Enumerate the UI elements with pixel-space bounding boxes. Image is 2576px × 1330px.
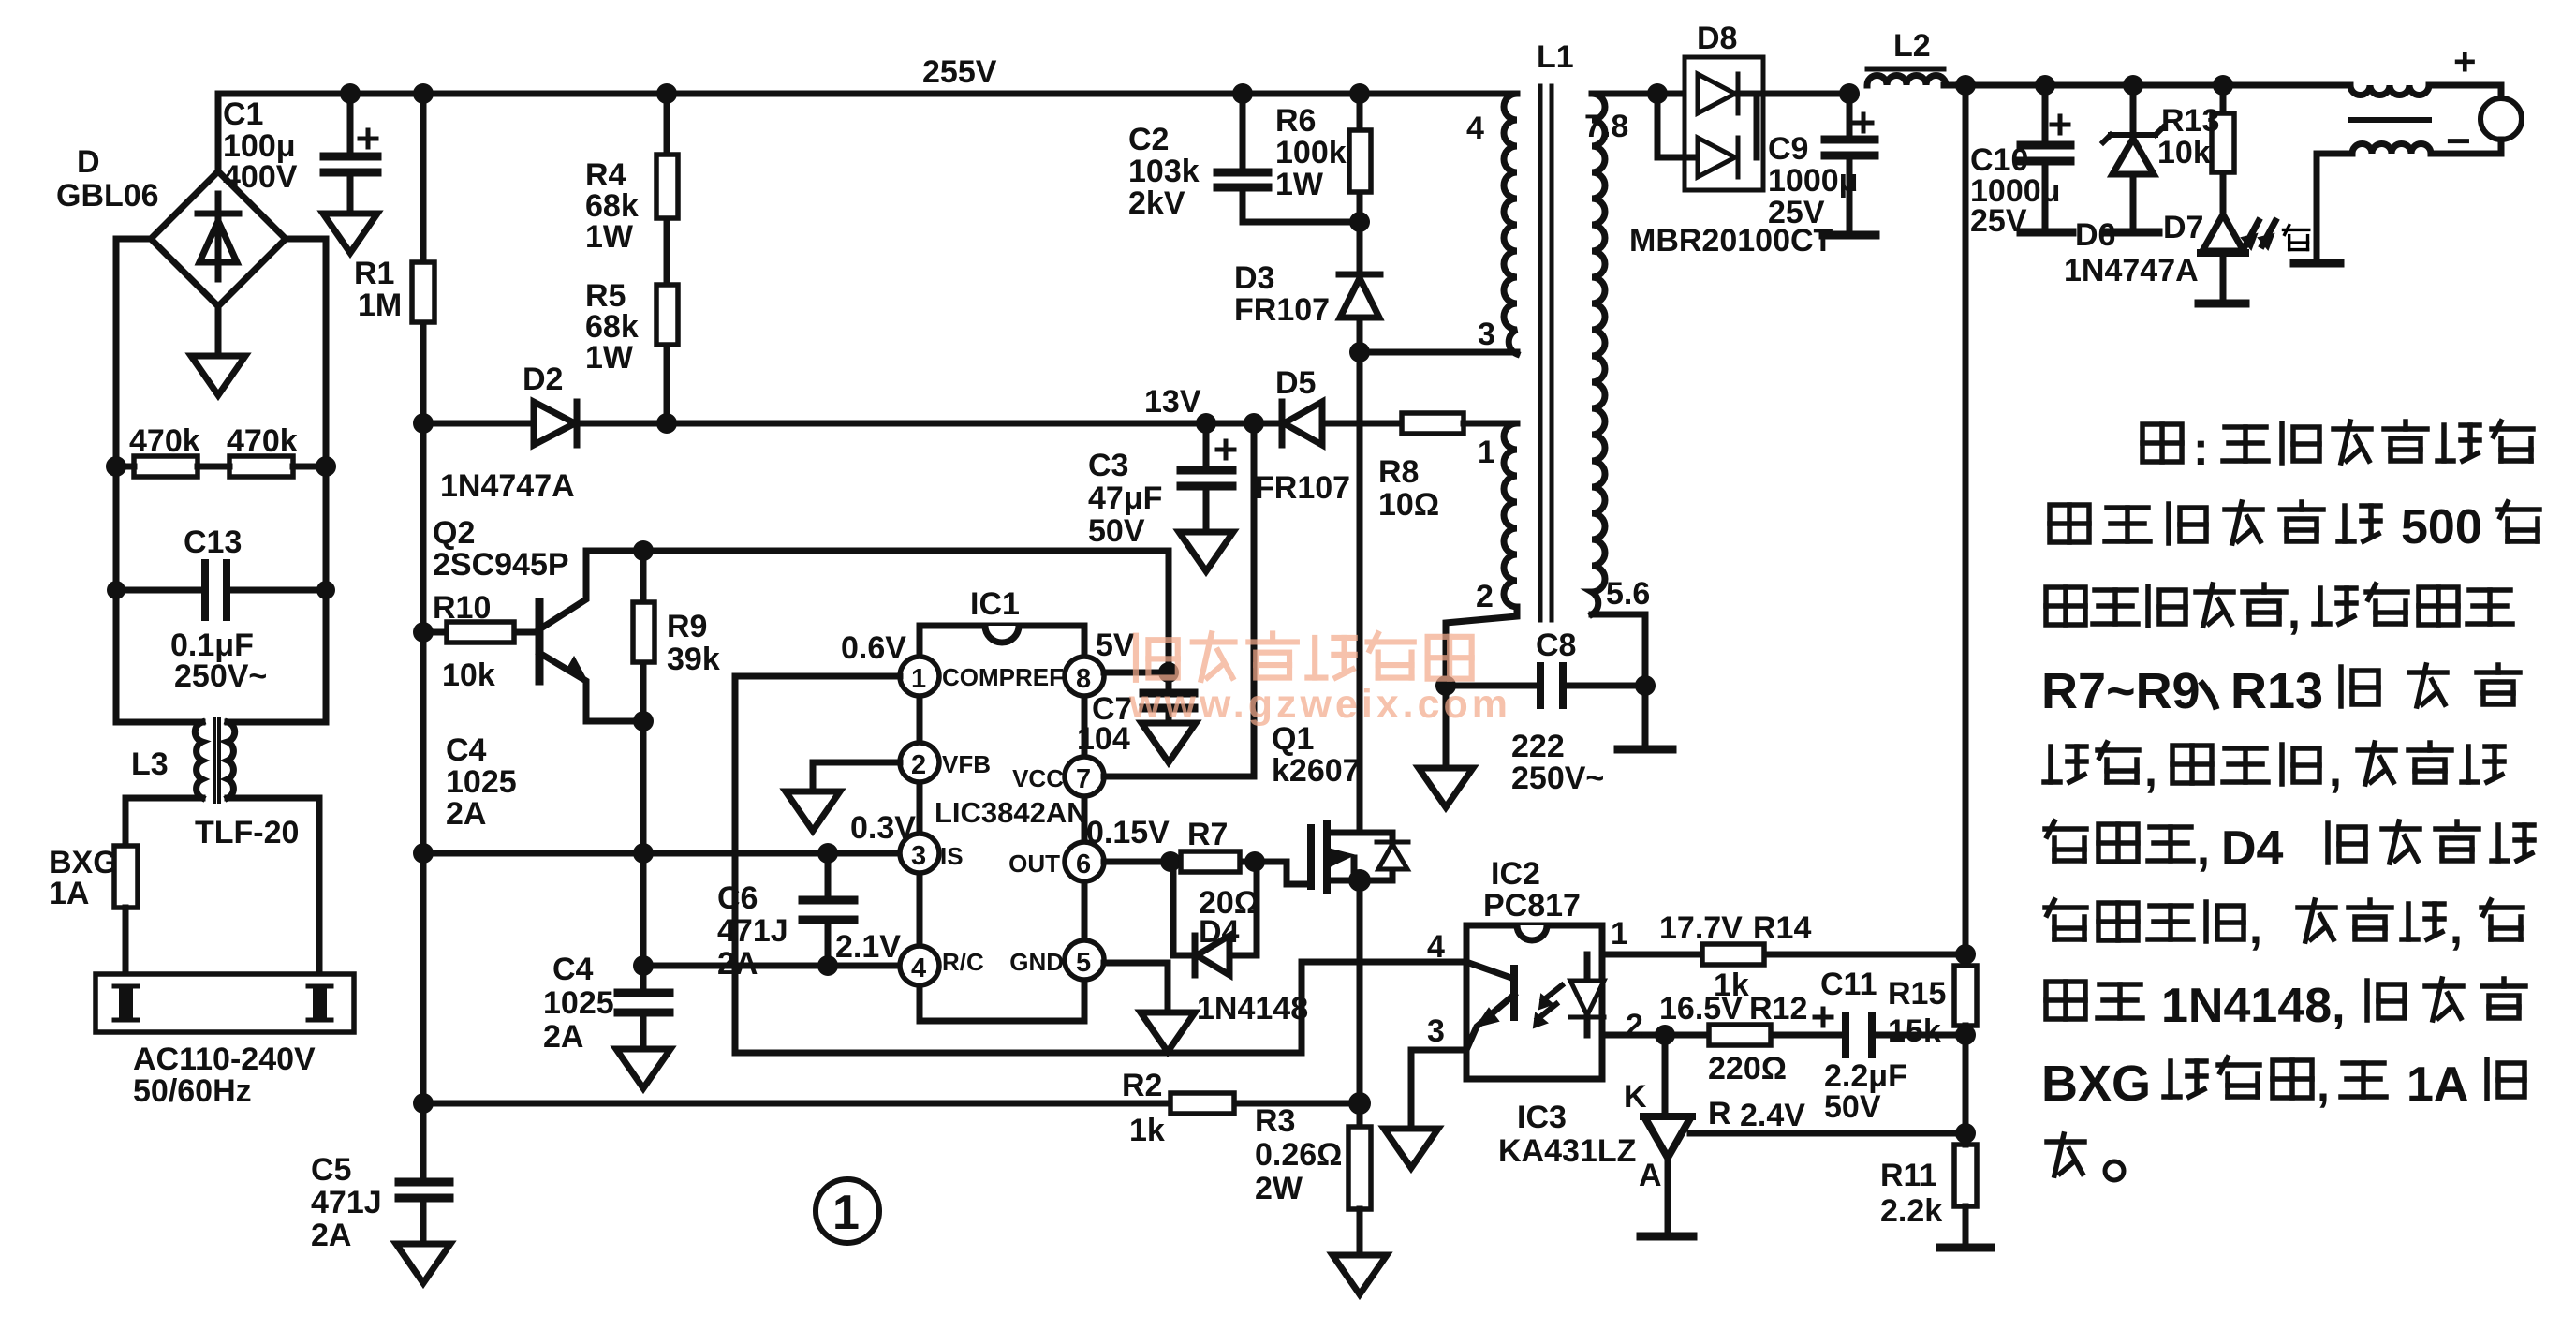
svg-text:25V: 25V: [1768, 195, 1825, 230]
svg-text:0.6V: 0.6V: [841, 630, 906, 666]
svg-text:,: ,: [2317, 1058, 2330, 1111]
svg-text:C13: C13: [184, 525, 242, 560]
svg-text:R8: R8: [1378, 454, 1419, 490]
svg-text:,: ,: [2329, 744, 2342, 796]
node 0.6V: [841, 630, 906, 666]
svg-text:10k: 10k: [442, 658, 495, 693]
wire R12 row: [1602, 1032, 1965, 1039]
svg-text:5V: 5V: [1096, 628, 1135, 663]
svg-text:−: −: [2446, 116, 2471, 165]
wire bridge left arm: [116, 239, 202, 722]
capacitor C5: [399, 1182, 449, 1198]
svg-text:25V: 25V: [1970, 203, 2027, 239]
resistor R13 10k: [2220, 85, 2227, 211]
svg-text:AC110-240V: AC110-240V: [133, 1042, 316, 1077]
svg-text:C4: C4: [552, 952, 594, 987]
svg-text:R13: R13: [2161, 103, 2219, 139]
svg-text:39k: 39k: [667, 642, 720, 677]
svg-text:471J: 471J: [311, 1185, 382, 1220]
resistor R1 1M: [420, 94, 427, 423]
svg-text:1: 1: [1611, 916, 1628, 952]
svg-text:16.5V: 16.5V: [1659, 991, 1743, 1027]
resistor 470k (right): [229, 456, 293, 477]
svg-text:2A: 2A: [446, 796, 486, 832]
svg-text:1025: 1025: [446, 764, 517, 800]
transformer L1 primary upper (4-3): [1537, 39, 1574, 75]
capacitor C11 2.2uF 50V: [1846, 1015, 1872, 1055]
svg-text:15k: 15k: [1888, 1013, 1941, 1049]
pin 6: [1065, 842, 1104, 881]
svg-text:R12: R12: [1749, 991, 1807, 1027]
capacitor C8 222 250V~: [1446, 607, 1645, 749]
svg-text:50V: 50V: [1088, 513, 1145, 549]
svg-text:R14: R14: [1753, 910, 1811, 946]
diode D6 1N4747A (zener): [2130, 85, 2137, 230]
svg-text:GND: GND: [1009, 948, 1064, 976]
capacitor C6 471J: [825, 853, 832, 966]
svg-text:IC3: IC3: [1517, 1100, 1567, 1135]
wire Q1 source down: [1357, 880, 1363, 1127]
svg-text:0.3V: 0.3V: [850, 810, 916, 846]
svg-text:+: +: [2453, 39, 2477, 83]
LED D7 green: [2202, 214, 2244, 251]
inductor L2: [1893, 28, 1931, 64]
diode D5 FR107: [1244, 413, 1264, 434]
inductor L3 common-mode choke: [195, 722, 202, 798]
pin 7: [1065, 757, 1104, 796]
svg-text:2A: 2A: [311, 1218, 351, 1253]
svg-text:0.26Ω: 0.26Ω: [1255, 1137, 1342, 1173]
svg-text:1N4148: 1N4148: [1197, 991, 1308, 1027]
svg-text:R11: R11: [1880, 1158, 1937, 1193]
svg-text:50/60Hz: 50/60Hz: [133, 1073, 252, 1109]
transformer L1 primary lower (1-2): [1476, 435, 1495, 614]
svg-text:222: 222: [1511, 729, 1565, 764]
resistor R2 1k: [1170, 1093, 1234, 1114]
svg-text:D6: D6: [2075, 217, 2115, 253]
svg-text:2.2k: 2.2k: [1880, 1193, 1942, 1229]
svg-text:47μF: 47μF: [1088, 480, 1162, 516]
resistor R12 220ohm: [1709, 1025, 1771, 1045]
wire R/C line: [643, 963, 896, 969]
svg-text:4: 4: [1427, 929, 1445, 965]
wire L3 to fuse: [125, 798, 202, 846]
svg-text:1A: 1A: [49, 876, 89, 911]
resistor R6 100k 1W: [1349, 83, 1370, 104]
svg-text:2W: 2W: [1255, 1171, 1303, 1206]
capacitor C4 1025 2A (lower): [640, 966, 647, 1049]
wire bottom bus: [423, 1101, 1360, 1107]
wire IC2 pin2 down to IC3: [1662, 1035, 1669, 1115]
svg-text:2.1V: 2.1V: [835, 929, 901, 965]
wire bridge top feed: [215, 94, 222, 171]
svg-text:GBL06: GBL06: [56, 178, 159, 214]
svg-text:REF: REF: [1015, 663, 1064, 691]
IC2 phototransistor: [1510, 968, 1518, 1017]
svg-text:2: 2: [911, 750, 926, 780]
capacitor C10 1000u 25V: [2042, 85, 2049, 143]
svg-text:1000μ: 1000μ: [1768, 163, 1858, 199]
wire IS sense line: [423, 850, 896, 857]
transistor Q2 2SC945P: [536, 602, 544, 681]
svg-text:103k: 103k: [1128, 154, 1200, 189]
optocoupler IC2 PC817: [1483, 856, 1581, 924]
wire Q2 collector rail to C7 node: [586, 551, 1169, 691]
svg-text:6: 6: [1076, 850, 1091, 879]
svg-text:D5: D5: [1275, 365, 1316, 401]
capacitor C7 104: [1166, 672, 1172, 691]
svg-text:C3: C3: [1088, 448, 1128, 483]
svg-text:C8: C8: [1536, 628, 1576, 663]
resistor R10 10k: [423, 629, 536, 636]
LED light arrows: [2245, 221, 2275, 245]
svg-text:,: ,: [2144, 744, 2157, 796]
svg-text:1: 1: [832, 1186, 860, 1240]
wire VCC from 13V rail: [1104, 423, 1254, 776]
capacitor C1: [347, 94, 354, 155]
svg-text:FR107: FR107: [1255, 470, 1350, 506]
svg-text:4: 4: [1466, 111, 1484, 146]
resistor R11 2.2k: [1954, 1145, 1977, 1206]
svg-text:1N4747A: 1N4747A: [440, 468, 575, 504]
diode D4 1N4148: [1173, 862, 1257, 955]
svg-text:IS: IS: [940, 842, 964, 870]
svg-text:D8: D8: [1697, 21, 1737, 56]
svg-text:1W: 1W: [585, 340, 634, 376]
svg-text:470k: 470k: [129, 423, 200, 459]
svg-text:13V: 13V: [1144, 384, 1201, 420]
svg-text:250V~: 250V~: [174, 658, 267, 694]
wire secondary top to D8: [1592, 91, 1685, 97]
wire 13V rail: [423, 421, 1280, 427]
svg-text:10Ω: 10Ω: [1378, 487, 1439, 523]
svg-text:255V: 255V: [922, 54, 997, 90]
pin 5: [1065, 940, 1104, 980]
op-amp IC1 LIC3842AN box: [920, 626, 1084, 1021]
svg-text:D3: D3: [1234, 260, 1274, 296]
svg-text:R1: R1: [354, 256, 394, 291]
svg-text:OUT: OUT: [1008, 850, 1060, 878]
pin 2: [900, 743, 939, 782]
svg-text:A: A: [1639, 1158, 1662, 1193]
pin 1: [900, 657, 939, 696]
diode D3 FR107: [1357, 222, 1363, 352]
svg-text:470k: 470k: [227, 423, 298, 459]
svg-text:R3: R3: [1255, 1103, 1295, 1139]
svg-text:50V: 50V: [1824, 1089, 1881, 1125]
svg-text:FR107: FR107: [1234, 292, 1330, 328]
fuse BXG 1A: [114, 846, 138, 908]
svg-text:3: 3: [1427, 1013, 1445, 1049]
svg-text:1N4148,: 1N4148,: [2161, 979, 2346, 1033]
resistor R7 20ohm: [1181, 851, 1240, 872]
capacitor C13: [116, 587, 326, 594]
watermark: [1128, 633, 1511, 727]
wire R14 row: [1602, 952, 1965, 958]
svg-text:1W: 1W: [585, 219, 634, 255]
svg-text:C1: C1: [223, 96, 263, 132]
svg-text:1025: 1025: [543, 985, 614, 1021]
transformer L1 core: [1540, 86, 1552, 620]
wire OUT to gate: [1104, 862, 1309, 884]
svg-text:R15: R15: [1888, 976, 1946, 1012]
svg-text:1A: 1A: [2407, 1057, 2468, 1112]
svg-text:BXG: BXG: [2041, 1056, 2151, 1112]
svg-text:D2: D2: [523, 362, 563, 397]
svg-text:C5: C5: [311, 1152, 351, 1188]
svg-text:R7: R7: [1187, 817, 1228, 852]
svg-text:R: R: [1708, 1096, 1731, 1131]
svg-text:VCC: VCC: [1012, 764, 1064, 792]
wire REF 5V to node: [1104, 670, 1169, 676]
svg-text:4: 4: [911, 953, 926, 983]
svg-text:D4: D4: [1199, 914, 1240, 950]
svg-text:www.gzweix.com: www.gzweix.com: [1128, 682, 1511, 727]
svg-text:C9: C9: [1768, 131, 1808, 167]
wire GND pin5 to ground: [1104, 963, 1168, 1012]
pin 3: [900, 834, 939, 873]
pin 4: [900, 946, 939, 985]
svg-text:R2: R2: [1122, 1068, 1162, 1103]
svg-text:500: 500: [2401, 500, 2482, 554]
svg-text:IC1: IC1: [970, 586, 1020, 622]
svg-text:L2: L2: [1893, 28, 1931, 64]
ground below bridge: [215, 306, 222, 356]
svg-text:2SC945P: 2SC945P: [433, 547, 569, 583]
wire IC2 pin3 to ground: [1411, 1050, 1466, 1129]
svg-text:VFB: VFB: [942, 750, 991, 778]
note text (Chinese, drawn as pseudo-glyph strokes): [2041, 421, 2539, 1180]
svg-text:R7~R9: R7~R9: [2041, 663, 2201, 719]
svg-text:7: 7: [1076, 764, 1091, 794]
bridge rectifier D GBL06: [151, 171, 286, 306]
svg-text:L1: L1: [1537, 39, 1574, 75]
resistor R15 15k: [1954, 966, 1977, 1026]
svg-text:R10: R10: [433, 590, 491, 626]
svg-text:3: 3: [1478, 317, 1495, 352]
svg-text:2A: 2A: [543, 1019, 583, 1055]
resistor R3 0.26ohm 2W: [1348, 1127, 1371, 1209]
svg-text:5: 5: [1076, 948, 1091, 978]
svg-text:K: K: [1624, 1079, 1647, 1115]
wire output top rail: [1944, 82, 2350, 89]
wire D3 node to transformer pin3: [1360, 349, 1517, 356]
svg-text:C2: C2: [1128, 122, 1169, 157]
label green (CJK pseudo): [2283, 225, 2308, 249]
svg-text:R9: R9: [667, 609, 707, 644]
svg-text:100k: 100k: [1275, 135, 1347, 170]
svg-text:TLF-20: TLF-20: [195, 815, 299, 850]
svg-text:471J: 471J: [717, 913, 788, 949]
svg-text:2.4V: 2.4V: [1740, 1098, 1805, 1133]
svg-text:250V~: 250V~: [1511, 761, 1604, 796]
svg-text:5.6: 5.6: [1606, 576, 1650, 612]
node 0.15V: [1086, 815, 1170, 850]
node dots on output rail: [1955, 75, 1976, 96]
svg-text:KA431LZ: KA431LZ: [1498, 1133, 1636, 1169]
svg-text:1: 1: [911, 664, 926, 694]
svg-text:0.15V: 0.15V: [1086, 815, 1170, 850]
shunt regulator IC3 KA431LZ: [1498, 1100, 1636, 1169]
svg-text:LIC3842AN: LIC3842AN: [935, 796, 1088, 829]
wire bridge right arm: [228, 239, 326, 722]
resistor 470k (left): [134, 456, 198, 477]
svg-text:L3: L3: [131, 746, 169, 782]
svg-text:D4: D4: [2221, 821, 2284, 876]
capacitor C9 1000u 25V: [1839, 83, 1860, 104]
svg-text:D7: D7: [2163, 210, 2203, 245]
svg-text:,: ,: [2450, 901, 2463, 953]
svg-text:10k: 10k: [2157, 135, 2211, 170]
svg-text::: :: [2193, 422, 2209, 475]
svg-text:104: 104: [1077, 721, 1130, 757]
svg-text:R/C: R/C: [942, 948, 984, 976]
svg-text:1W: 1W: [1275, 167, 1324, 202]
wire COMP feedback loop to IC2 pin4: [735, 676, 1466, 1053]
svg-text:D: D: [77, 144, 100, 180]
svg-text:2: 2: [1626, 1008, 1643, 1043]
IC2 LED: [1584, 954, 1591, 1035]
wire VFB to ground: [813, 762, 900, 791]
wire 255V top bus: [218, 91, 1517, 97]
resistor R4 68k 1W: [664, 94, 670, 285]
diode D8 MBR20100CT: [1697, 21, 1737, 56]
svg-text:1N4747A: 1N4747A: [2064, 253, 2199, 288]
capacitor C2 103k 2kV: [1232, 83, 1253, 104]
svg-text:C4: C4: [446, 732, 487, 768]
svg-text:R6: R6: [1275, 103, 1316, 139]
node dot C1/bus: [340, 83, 361, 104]
resistor R8 10ohm: [1322, 421, 1402, 427]
wire L3 right to plug: [228, 798, 319, 983]
svg-text:PC817: PC817: [1483, 888, 1581, 924]
transistor Q1 k2607 MOSFET: [1272, 721, 1361, 789]
svg-text:C11: C11: [1820, 967, 1877, 1002]
wire left main vertical bus: [420, 423, 427, 1182]
wire Q1 drain up to transformer: [1357, 352, 1363, 833]
svg-text:,: ,: [2197, 822, 2210, 875]
svg-text:2: 2: [1476, 579, 1494, 614]
svg-text:IC2: IC2: [1491, 856, 1540, 892]
output ferrite bead and connector: [2350, 85, 2429, 96]
resistor R9 39k: [640, 551, 647, 721]
svg-text:R13: R13: [2230, 663, 2323, 719]
svg-text:1: 1: [1478, 435, 1495, 470]
wire right feedback vertical: [1963, 85, 1969, 966]
svg-text:,: ,: [2288, 585, 2301, 638]
resistor R14 1k: [1702, 944, 1764, 965]
svg-text:k2607: k2607: [1272, 753, 1361, 789]
figure number 1: [816, 1179, 879, 1243]
svg-text:1k: 1k: [1129, 1113, 1165, 1148]
node 0.3V: [850, 810, 916, 846]
svg-text:Q2: Q2: [433, 515, 475, 551]
capacitor C4 label (upper): [446, 732, 517, 832]
svg-text:17.7V: 17.7V: [1659, 910, 1743, 946]
capacitor C3 47uF 50V: [1196, 413, 1216, 434]
AC plug: [96, 974, 354, 1032]
svg-text:400V: 400V: [223, 159, 298, 195]
diode D2 1N4747A: [534, 402, 577, 445]
transformer L1 secondary (7.8-5.6): [1584, 109, 1650, 612]
node 255V label: [922, 54, 997, 90]
svg-text:220Ω: 220Ω: [1708, 1051, 1787, 1086]
wire 2.4V reference row: [1691, 1130, 1965, 1137]
svg-text:8: 8: [1076, 664, 1091, 694]
svg-text:2kV: 2kV: [1128, 185, 1185, 221]
svg-text:COMP: COMP: [942, 663, 1015, 691]
svg-text:,: ,: [2249, 901, 2262, 953]
svg-text:1M: 1M: [358, 288, 402, 323]
pin 8: [1065, 657, 1104, 696]
resistor R5 68k 1W: [664, 345, 670, 423]
